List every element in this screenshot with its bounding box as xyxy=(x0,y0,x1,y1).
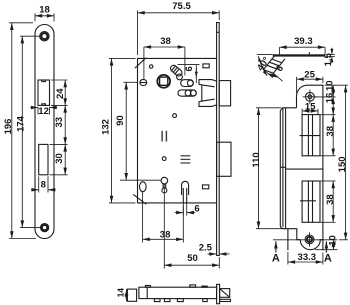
dim 38 top xyxy=(143,47,145,79)
strip tick xyxy=(217,31,220,33)
lower slot pin a xyxy=(185,90,191,96)
plate seam xyxy=(286,168,323,170)
svg-text:33: 33 xyxy=(54,117,65,128)
deadbolt head xyxy=(217,142,231,176)
section arrow right xyxy=(325,241,327,252)
body inner line xyxy=(146,287,148,298)
rivet 1 xyxy=(150,65,153,68)
bar tick xyxy=(308,52,310,54)
bottom screw hole xyxy=(305,235,314,244)
reference line xyxy=(257,53,273,55)
tilted spring slot (hatched) xyxy=(169,64,183,77)
latch in window xyxy=(307,115,309,156)
svg-text:2.5: 2.5 xyxy=(199,242,213,253)
dim 110 xyxy=(256,107,281,109)
top screw hole xyxy=(306,92,315,101)
dim 10 bottom xyxy=(315,249,338,251)
svg-text:15: 15 xyxy=(305,102,316,113)
dim 174 xyxy=(20,35,40,37)
faceplate outline xyxy=(35,25,54,239)
rivet 3 xyxy=(162,157,166,161)
section arrow left xyxy=(275,241,277,252)
dim 90 bottom extension to pin xyxy=(120,179,161,181)
dim 10/16 stack xyxy=(325,84,349,86)
bottom-left corner mark xyxy=(133,195,146,205)
svg-text:33.3: 33.3 xyxy=(298,252,317,263)
svg-text:8: 8 xyxy=(41,180,46,191)
dim 50 xyxy=(218,257,220,269)
upper cutout bottom notch xyxy=(42,104,46,106)
latch bevel xyxy=(220,289,230,298)
dim 6 right xyxy=(178,64,200,66)
dim 39.3 xyxy=(279,47,281,56)
plate top part xyxy=(296,85,322,250)
deadbolt window xyxy=(302,181,320,222)
dim 38 top window xyxy=(321,155,336,157)
middle slot xyxy=(181,80,194,87)
svg-text:174: 174 xyxy=(16,115,27,132)
upper cutout xyxy=(38,80,50,105)
top screw hole xyxy=(40,32,49,41)
rivet 2 xyxy=(173,114,177,118)
wing ledge xyxy=(280,108,296,229)
middle slot pin xyxy=(187,80,193,86)
svg-text:12: 12 xyxy=(38,106,49,117)
dim 18 xyxy=(34,13,36,21)
latch window xyxy=(302,115,320,156)
top bumps xyxy=(145,286,150,288)
dim 90 xyxy=(124,81,138,83)
stamp marks triple xyxy=(181,155,191,157)
bottom tab arc xyxy=(300,240,323,250)
svg-text:196: 196 xyxy=(3,119,14,135)
lock case outline xyxy=(138,58,217,203)
lower slot pin b xyxy=(190,90,196,96)
dim 75.5 xyxy=(137,10,139,55)
svg-text:38: 38 xyxy=(160,36,171,47)
bent lip strip xyxy=(263,56,285,74)
svg-text:38: 38 xyxy=(160,229,171,240)
end cap box xyxy=(127,289,136,301)
lip hatch xyxy=(272,59,282,63)
chain pin circle xyxy=(177,74,183,80)
svg-text:A: A xyxy=(272,253,280,265)
dim 6 lip xyxy=(263,70,272,78)
dim 8 xyxy=(38,176,40,192)
dim 196 xyxy=(9,22,33,24)
svg-text:110: 110 xyxy=(251,152,262,167)
latch bolt head xyxy=(219,81,230,106)
svg-text:150: 150 xyxy=(337,156,348,172)
screw hole bottom right xyxy=(203,185,209,189)
dim 24 xyxy=(51,79,68,81)
strip inner lines xyxy=(282,108,284,227)
dim 15 xyxy=(301,109,303,115)
dim 38 bottom xyxy=(142,192,144,243)
section line A-A xyxy=(273,239,338,241)
svg-text:38: 38 xyxy=(325,194,336,205)
svg-text:10: 10 xyxy=(324,80,335,91)
stamp marks pair xyxy=(161,131,163,142)
angle arc 40 xyxy=(258,56,267,75)
latch bolt body xyxy=(199,80,217,87)
dim 6 bottom xyxy=(182,204,184,216)
svg-text:A: A xyxy=(324,253,332,265)
lower slot xyxy=(178,90,196,96)
svg-text:24: 24 xyxy=(55,88,66,99)
screw hole top right xyxy=(203,64,209,68)
svg-text:132: 132 xyxy=(101,119,112,135)
flat bar section xyxy=(273,54,325,56)
svg-text:40°: 40° xyxy=(255,55,272,73)
upper cutout top notch xyxy=(42,80,46,82)
dim 14 xyxy=(126,289,128,301)
face plate edge strip xyxy=(217,23,220,256)
pin with link xyxy=(161,177,168,184)
svg-text:50: 50 xyxy=(187,253,198,264)
svg-text:6: 6 xyxy=(194,203,199,214)
dim 1.5 xyxy=(326,53,335,55)
svg-text:18: 18 xyxy=(39,5,50,16)
dim 2.5 xyxy=(208,253,217,255)
svg-text:25: 25 xyxy=(304,70,315,81)
svg-text:39.3: 39.3 xyxy=(294,36,313,47)
case body bottom view xyxy=(139,287,217,298)
svg-text:16: 16 xyxy=(324,93,335,104)
bottom wing xyxy=(288,229,300,240)
svg-text:1.5: 1.5 xyxy=(323,52,334,66)
svg-text:75.5: 75.5 xyxy=(172,1,191,12)
faceplate bar xyxy=(217,284,220,303)
svg-text:10: 10 xyxy=(327,235,338,246)
dim 33 xyxy=(50,143,68,145)
dim 132 xyxy=(109,57,136,59)
bottom-left oval hole xyxy=(140,182,147,192)
svg-text:38: 38 xyxy=(325,126,336,137)
svg-text:6: 6 xyxy=(184,66,195,71)
deadbolt strip xyxy=(220,299,231,301)
deadbolt in window xyxy=(307,181,309,222)
dim 38 bottom window xyxy=(321,180,336,182)
U tab xyxy=(182,181,189,195)
svg-text:14: 14 xyxy=(116,288,126,298)
top-left corner mark xyxy=(135,58,147,68)
bottom screw hole xyxy=(41,224,49,232)
spindle square xyxy=(160,77,168,85)
dim 12 xyxy=(37,107,39,115)
bottom tabs xyxy=(154,299,160,302)
svg-text:90: 90 xyxy=(115,115,126,126)
dim 30 xyxy=(50,174,68,176)
lower cutout xyxy=(39,144,48,174)
svg-text:30: 30 xyxy=(54,153,65,164)
strip joint tick xyxy=(280,166,285,168)
left slot xyxy=(140,80,147,86)
dim 33.3 xyxy=(287,252,289,265)
dim 25 xyxy=(296,77,298,93)
dim 150 xyxy=(345,85,347,240)
centerline to 50 xyxy=(163,184,165,269)
follower hub ring xyxy=(157,75,170,88)
